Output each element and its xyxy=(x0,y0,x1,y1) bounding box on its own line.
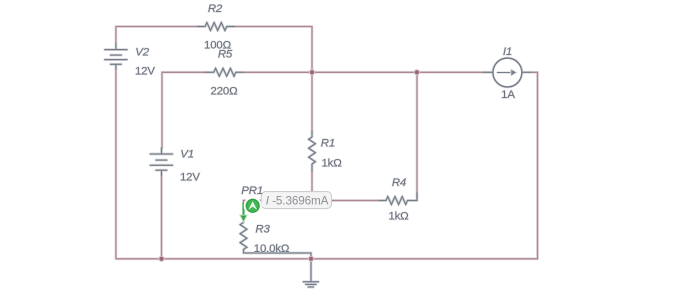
svg-text:I1: I1 xyxy=(503,46,512,58)
svg-text:R2: R2 xyxy=(208,3,223,15)
svg-text:12V: 12V xyxy=(135,66,155,78)
svg-text:10.0kΩ: 10.0kΩ xyxy=(254,243,290,255)
svg-text:PR1: PR1 xyxy=(241,185,263,197)
svg-text:12V: 12V xyxy=(180,171,200,183)
svg-text:R4: R4 xyxy=(392,177,406,189)
svg-text:R3: R3 xyxy=(255,224,270,236)
svg-text:1kΩ: 1kΩ xyxy=(322,158,343,170)
svg-text:R1: R1 xyxy=(321,137,335,149)
svg-text:1kΩ: 1kΩ xyxy=(388,210,409,222)
svg-text:V1: V1 xyxy=(180,148,194,160)
svg-text:V2: V2 xyxy=(135,47,149,59)
svg-text:R5: R5 xyxy=(218,48,233,60)
svg-text:I -5.3696mA: I -5.3696mA xyxy=(266,195,329,208)
svg-text:220Ω: 220Ω xyxy=(211,86,239,98)
svg-text:1A: 1A xyxy=(501,89,515,101)
